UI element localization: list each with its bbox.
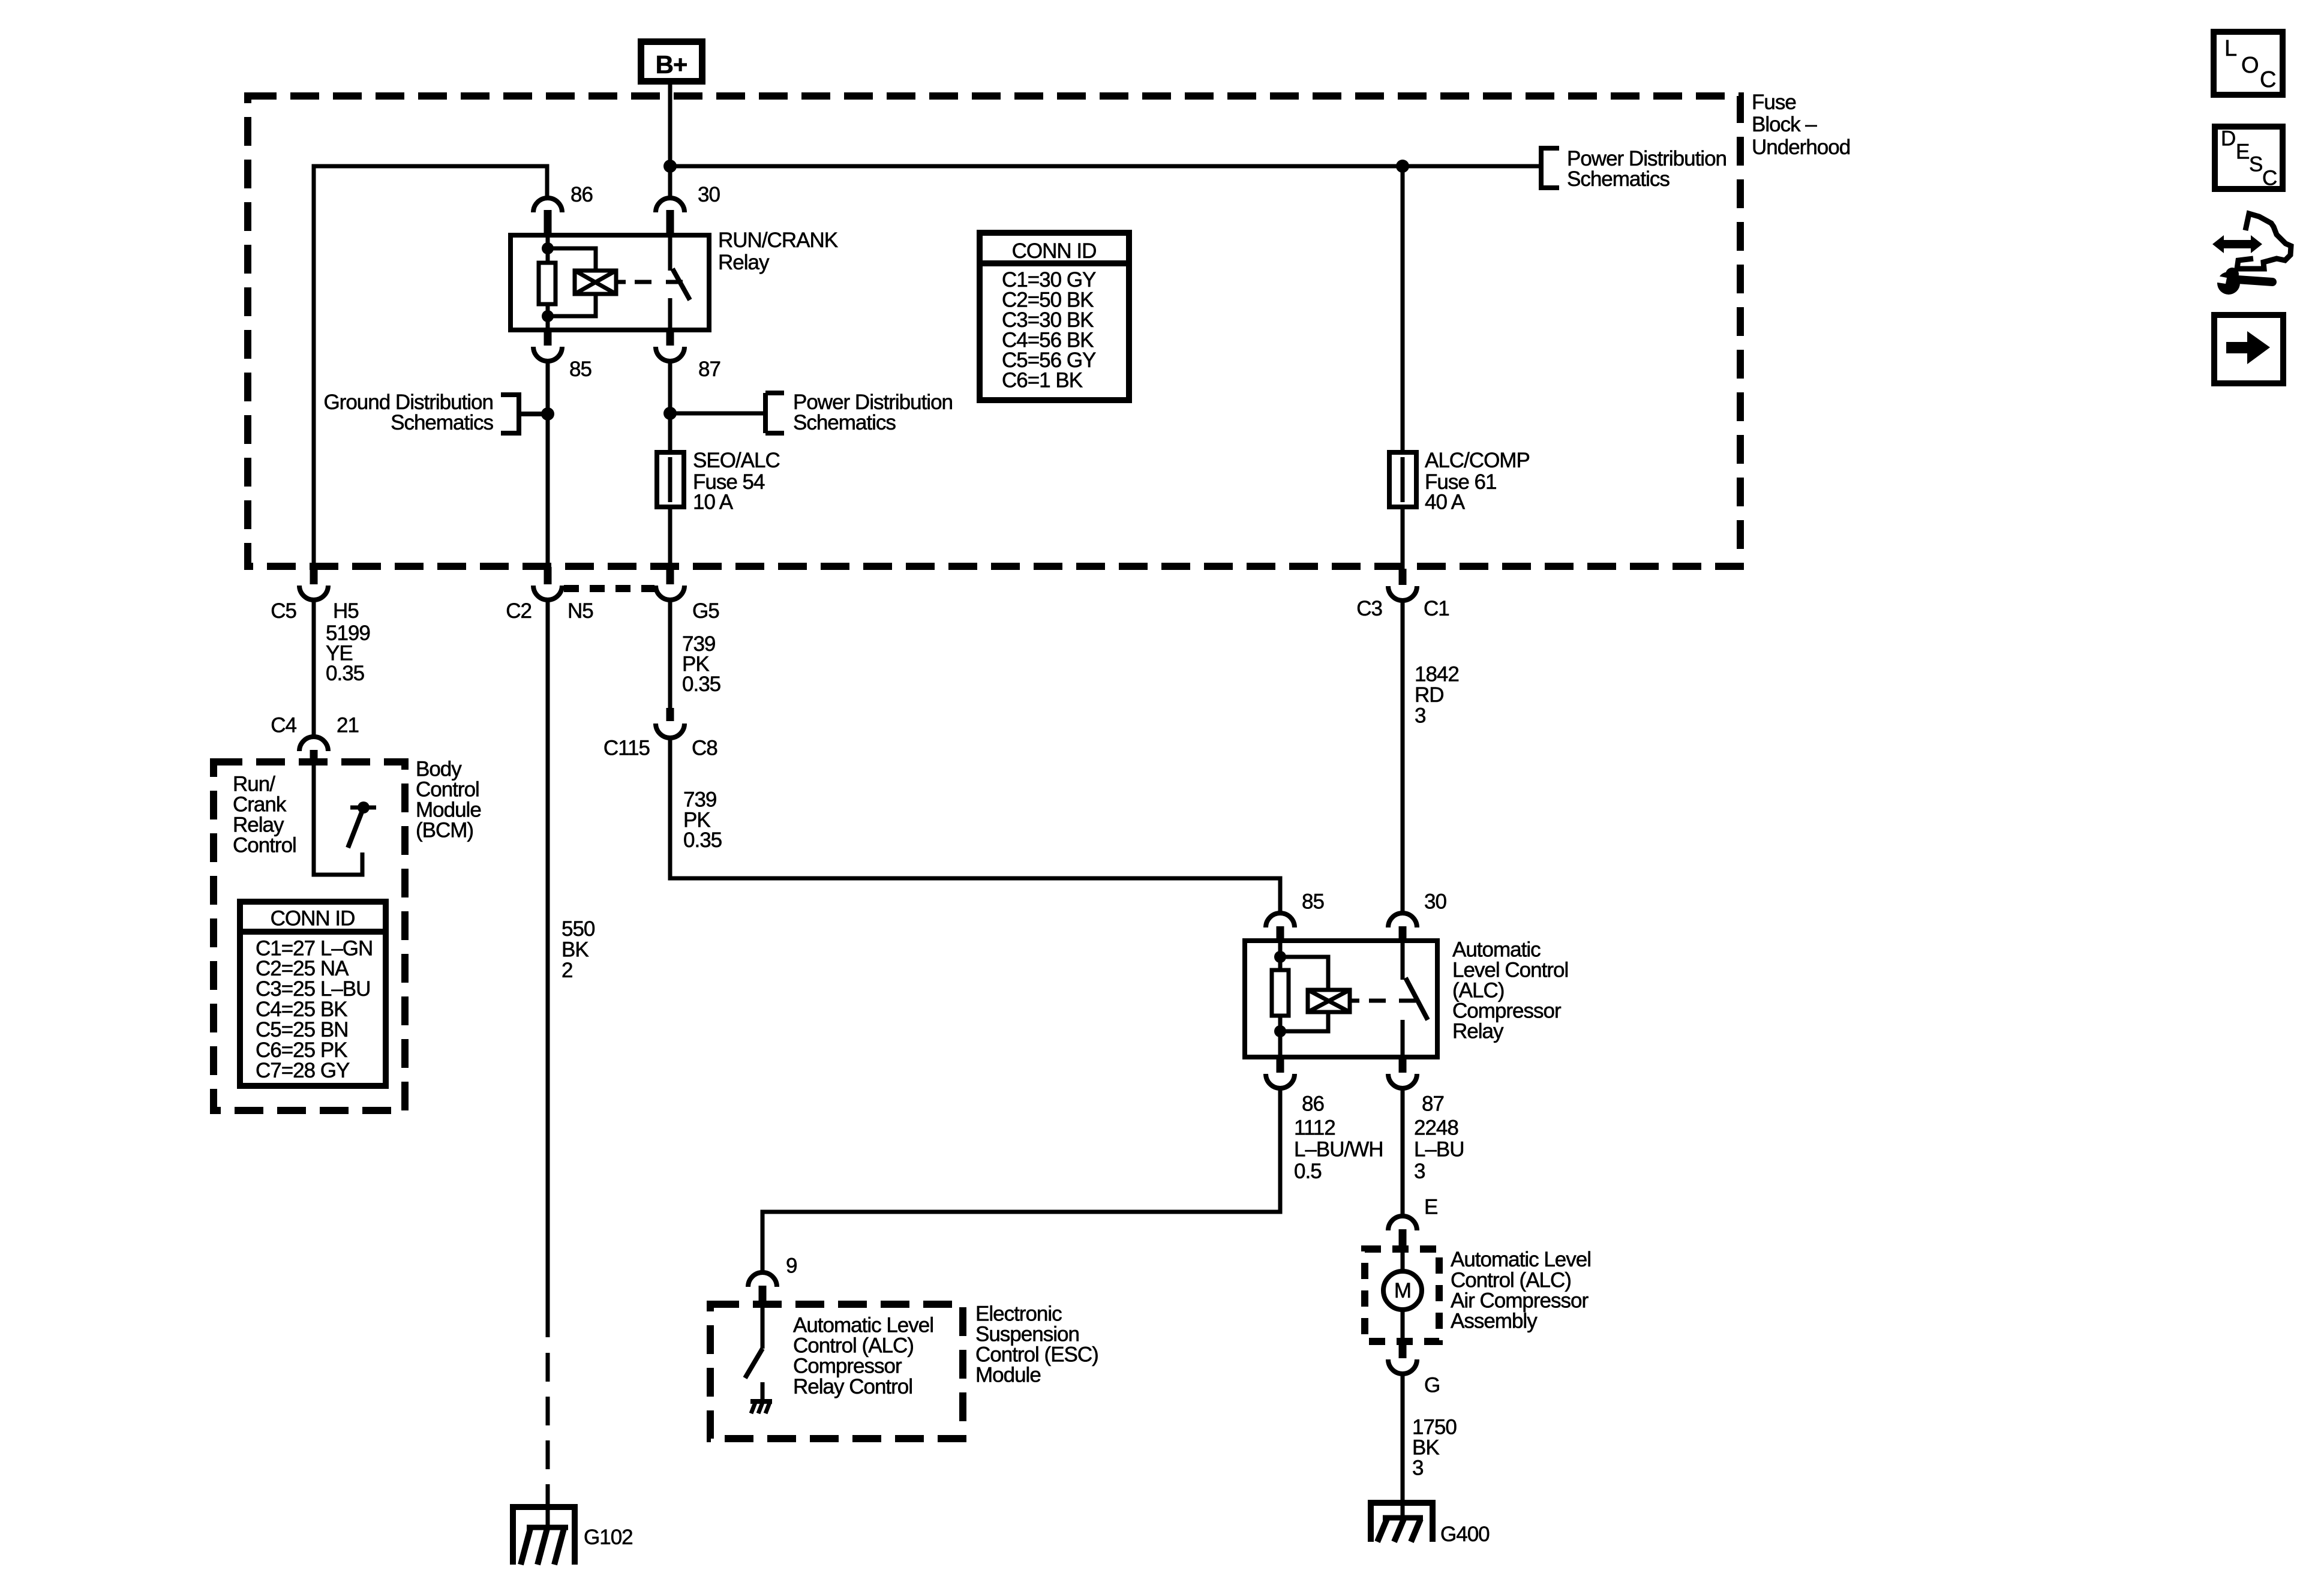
- svg-text:Compressor: Compressor: [793, 1355, 902, 1378]
- wire relay 87 to fuse 54: [668, 361, 672, 570]
- svg-text:Schematics: Schematics: [1567, 167, 1670, 191]
- node junction dot ground distribution tap: [541, 407, 554, 421]
- icon LOC box: [2214, 32, 2283, 95]
- label wire 2248 L-BU 3: [1414, 1116, 1464, 1184]
- svg-text:10 A: 10 A: [693, 491, 734, 514]
- label Automatic Level Control (ALC) Air Compressor Assembly: [1451, 1248, 1591, 1333]
- coil RUN/CRANK relay winding symbol: [575, 271, 616, 294]
- connector C2 fuse block (pin N5): [506, 567, 593, 623]
- node ALC coil bottom junction: [1274, 1025, 1286, 1037]
- svg-text:Module: Module: [975, 1364, 1041, 1387]
- svg-text:Relay Control: Relay Control: [793, 1375, 912, 1398]
- table CONN ID fuse block: [980, 233, 1129, 400]
- label Ground Distribution Schematics: [323, 391, 493, 434]
- wire main horizontal bus: [670, 164, 1541, 169]
- switch ESC relay control driver: [745, 1304, 762, 1401]
- label wire 1842 RD 3: [1415, 663, 1459, 728]
- svg-text:86: 86: [571, 183, 593, 206]
- svg-text:40 A: 40 A: [1425, 491, 1466, 514]
- motor M ALC air compressor: [1383, 1249, 1422, 1341]
- svg-text:S: S: [2249, 153, 2262, 176]
- pin 87 connector of RUN/CRANK relay: [656, 330, 720, 381]
- pin 86 connector of RUN/CRANK relay: [533, 183, 593, 235]
- connector pin 9 of ESC module: [748, 1254, 797, 1305]
- label wire 1750 BK 3: [1412, 1416, 1457, 1480]
- label SEO/ALC Fuse 54 10 A: [693, 449, 780, 514]
- table CONN ID BCM: [240, 902, 386, 1086]
- svg-text:87: 87: [1422, 1092, 1444, 1116]
- resistor ALC relay coil suppression: [1272, 941, 1289, 1057]
- node B+ battery feed: [641, 42, 702, 82]
- svg-text:2248: 2248: [1414, 1116, 1458, 1140]
- wire left branch to relay pin 86: [314, 166, 547, 570]
- svg-text:Control: Control: [233, 834, 296, 857]
- svg-text:C1: C1: [1424, 597, 1449, 620]
- wire tap to power distribution bracket: [670, 412, 765, 416]
- fuse F54 SEO/ALC: [657, 452, 684, 507]
- svg-text:G: G: [1424, 1374, 1440, 1397]
- svg-text:C5: C5: [271, 599, 296, 623]
- relay K1 RUN/CRANK relay box: [511, 235, 709, 330]
- label Fuse Block - Underhood: [1752, 91, 1850, 159]
- node coil bottom junction: [542, 310, 554, 322]
- label Automatic Level Control (ALC) Compressor Relay: [1452, 938, 1568, 1043]
- svg-text:RUN/CRANK: RUN/CRANK: [718, 229, 838, 252]
- pin 30 connector of ALC relay: [1388, 890, 1446, 941]
- connector C5 fuse block (pin H5): [271, 567, 359, 623]
- svg-text:SEO/ALC: SEO/ALC: [693, 449, 780, 472]
- svg-text:C8: C8: [692, 737, 717, 760]
- fuse block underhood dashed box: [248, 96, 1740, 566]
- svg-text:3: 3: [1415, 704, 1425, 728]
- bracket Ground Distribution Schematics: [501, 395, 548, 433]
- connector G5 fuse block: [656, 567, 719, 623]
- connector C4 of BCM (pin 21): [271, 714, 359, 766]
- icon DESC box: [2215, 127, 2283, 190]
- label wire 550 BK 2: [562, 917, 595, 982]
- svg-text:1112: 1112: [1294, 1116, 1335, 1140]
- connector C115 (pin C8): [603, 708, 717, 760]
- svg-text:L–BU/WH: L–BU/WH: [1294, 1138, 1383, 1161]
- svg-text:9: 9: [786, 1254, 797, 1278]
- wire ALC relay 86 to ESC module pin 9: [762, 1088, 1280, 1272]
- label Body Control Module (BCM): [416, 758, 481, 842]
- label Power Distribution Schematics (middle): [793, 391, 953, 434]
- svg-text:C: C: [2262, 167, 2277, 190]
- label Electronic Suspension Control (ESC) Module: [975, 1302, 1098, 1387]
- svg-text:E: E: [2236, 140, 2249, 164]
- svg-text:L: L: [2224, 36, 2236, 61]
- node junction dot at ALC/COMP branch: [1396, 160, 1409, 173]
- wire C5 to BCM pin 21: [312, 600, 316, 737]
- switch RUN/CRANK relay contact: [670, 235, 690, 330]
- svg-text:Assembly: Assembly: [1451, 1310, 1538, 1333]
- svg-text:(BCM): (BCM): [416, 819, 473, 842]
- svg-text:N5: N5: [568, 599, 593, 623]
- wire relay 85 to connector C2: [546, 361, 550, 570]
- svg-text:2: 2: [562, 959, 572, 982]
- switch BCM run/crank relay driver: [348, 801, 376, 848]
- svg-text:O: O: [2241, 53, 2259, 78]
- svg-text:C4: C4: [271, 714, 296, 737]
- ALC air compressor assembly dashed box: [1365, 1249, 1439, 1341]
- svg-text:Relay: Relay: [718, 251, 770, 274]
- svg-text:86: 86: [1302, 1092, 1324, 1116]
- pin 86 connector of ALC relay: [1266, 1057, 1324, 1116]
- svg-text:85: 85: [1302, 890, 1324, 914]
- label wire 739 PK 0.35 (lower): [683, 788, 722, 852]
- label wire 1112 L-BU/WH 0.5: [1294, 1116, 1383, 1184]
- wire ALC relay 87 to compressor pin E: [1401, 1088, 1405, 1216]
- svg-text:C: C: [2260, 67, 2275, 92]
- svg-text:H5: H5: [333, 599, 359, 623]
- label Power Distribution Schematics (top right): [1567, 147, 1727, 191]
- label Automatic Level Control (ALC) Compressor Relay Control: [793, 1314, 933, 1399]
- fuse F61 ALC/COMP: [1389, 452, 1416, 507]
- svg-text:3: 3: [1414, 1160, 1425, 1183]
- svg-text:Schematics: Schematics: [391, 411, 493, 434]
- svg-text:L–BU: L–BU: [1414, 1138, 1464, 1161]
- svg-text:RD: RD: [1415, 683, 1444, 707]
- icon forward arrow box: [2214, 315, 2283, 383]
- pin 85 connector of ALC relay: [1266, 890, 1324, 941]
- svg-text:Fuse: Fuse: [1752, 91, 1796, 114]
- svg-text:B+: B+: [656, 50, 687, 79]
- svg-text:87: 87: [698, 358, 720, 381]
- label RUN/CRANK Relay: [718, 229, 838, 274]
- svg-text:ALC/COMP: ALC/COMP: [1425, 449, 1530, 472]
- svg-text:Underhood: Underhood: [1752, 136, 1850, 159]
- wire dashed section to G102: [546, 1353, 550, 1507]
- pin 85 connector of RUN/CRANK relay: [533, 330, 591, 381]
- svg-text:0.5: 0.5: [1294, 1160, 1322, 1183]
- node ALC coil top junction: [1274, 951, 1286, 963]
- svg-text:3: 3: [1412, 1457, 1423, 1480]
- svg-text:1842: 1842: [1415, 663, 1459, 686]
- icon double arrow with panel and wrench: [2212, 214, 2291, 295]
- BCM dashed box: [214, 762, 405, 1110]
- ground G102: [510, 1507, 633, 1565]
- connector C3 fuse block (pin C1): [1356, 569, 1449, 620]
- svg-text:C6=1 BK: C6=1 BK: [1002, 369, 1083, 392]
- wire coil to switch actuation dashes: [616, 280, 683, 284]
- coil ALC relay winding symbol: [1308, 990, 1350, 1012]
- wire C1 to ALC relay pin 30: [1401, 600, 1405, 913]
- svg-text:Schematics: Schematics: [793, 411, 896, 434]
- svg-text:C2: C2: [506, 599, 532, 623]
- wire G5 to C115: [668, 600, 672, 708]
- resistor RUN/CRANK relay coil suppression: [539, 235, 556, 330]
- node junction dot power distribution tap: [663, 407, 677, 420]
- pin 87 connector of ALC relay: [1388, 1057, 1444, 1116]
- wire BCM driver lower contact: [314, 764, 362, 875]
- wire ALC coil to switch actuation dashes: [1350, 999, 1416, 1003]
- wire B+ vertical feed: [668, 85, 672, 198]
- wire dashed link between connectors N5 and G5: [564, 585, 654, 592]
- svg-text:G102: G102: [584, 1526, 633, 1549]
- label ALC/COMP Fuse 61 40 A: [1425, 449, 1530, 514]
- connector pin G of ALC compressor: [1388, 1341, 1440, 1397]
- svg-text:M: M: [1394, 1279, 1411, 1302]
- svg-text:0.35: 0.35: [326, 662, 364, 685]
- svg-text:Block –: Block –: [1752, 113, 1817, 136]
- svg-text:0.35: 0.35: [683, 828, 722, 852]
- bracket Power Distribution Schematics (middle): [765, 393, 784, 433]
- wire 550 BK 2 connector N5 to ground G102: [546, 600, 550, 1337]
- pin 30 connector of RUN/CRANK relay: [656, 183, 720, 235]
- ground G400: [1368, 1503, 1490, 1546]
- svg-text:CONN ID: CONN ID: [271, 907, 355, 930]
- label Run/Crank Relay Control: [233, 773, 296, 857]
- svg-text:E: E: [1424, 1196, 1437, 1219]
- svg-text:CONN ID: CONN ID: [1012, 239, 1097, 263]
- ground internal ESC module: [750, 1401, 772, 1413]
- wire ALC/COMP branch vertical: [1401, 166, 1405, 570]
- wire coil parallel loop: [548, 248, 596, 316]
- node junction dot at B+ bus: [663, 160, 677, 173]
- svg-text:21: 21: [337, 714, 359, 737]
- connector pin E of ALC compressor: [1388, 1196, 1437, 1250]
- switch ALC relay contact: [1403, 941, 1428, 1057]
- bracket Power Distribution Schematics (top right): [1541, 148, 1559, 188]
- relay K2 ALC compressor relay box: [1245, 941, 1437, 1057]
- svg-text:Relay: Relay: [1452, 1020, 1504, 1043]
- ESC module dashed box: [710, 1304, 963, 1439]
- node coil top junction: [542, 242, 554, 254]
- svg-text:30: 30: [1424, 890, 1446, 914]
- svg-text:C115: C115: [603, 737, 650, 760]
- label wire 739 PK 0.35 (upper): [682, 632, 720, 696]
- svg-text:C3: C3: [1356, 597, 1382, 620]
- svg-text:BK: BK: [562, 938, 588, 962]
- label wire 5199 YE 0.35: [326, 622, 370, 685]
- svg-text:0.35: 0.35: [682, 673, 720, 696]
- svg-text:Automatic Level: Automatic Level: [1451, 1248, 1591, 1271]
- svg-text:85: 85: [569, 358, 591, 381]
- wire ALC coil parallel loop: [1280, 957, 1328, 1031]
- svg-text:30: 30: [698, 183, 720, 206]
- svg-text:G5: G5: [692, 599, 719, 623]
- svg-text:550: 550: [562, 917, 595, 941]
- wire C8 to ALC relay pin 85: [670, 738, 1280, 913]
- svg-text:C7=28 GY: C7=28 GY: [256, 1059, 350, 1082]
- wire pin G to ground G400: [1401, 1374, 1405, 1503]
- svg-text:D: D: [2221, 127, 2235, 151]
- svg-text:G400: G400: [1440, 1523, 1490, 1546]
